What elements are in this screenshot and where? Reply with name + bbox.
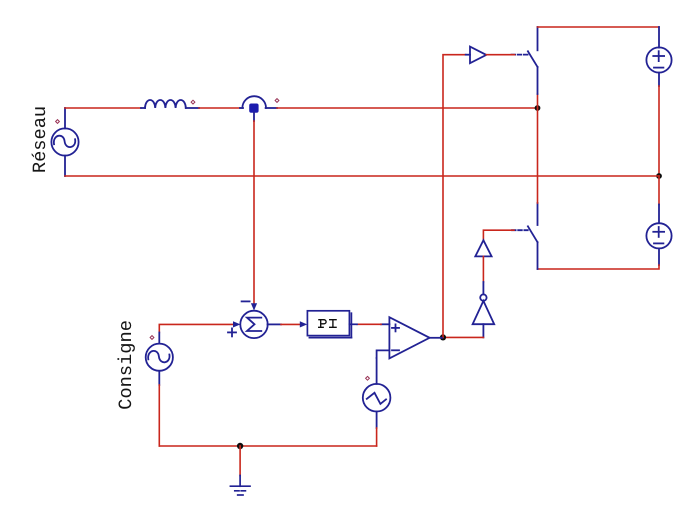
AC source VS2 (Consigne) — [146, 333, 173, 386]
wire mid bus — [65, 175, 659, 177]
label PI — [319, 320, 336, 328]
wire U2 to U3 — [482, 256, 484, 282]
arrowhead into SUM1 left — [233, 321, 240, 327]
label minus of SUM1 — [242, 300, 250, 302]
NOT gate U3 — [473, 282, 495, 337]
node phase junction — [535, 105, 541, 111]
inductor L1 — [141, 100, 199, 108]
buffer gate U4 — [466, 47, 487, 64]
wire comparator output to U3 input — [443, 336, 483, 338]
wire VS2 bottom to ground bus — [158, 385, 160, 446]
wire VTRI1 to ground bus — [376, 428, 378, 446]
wire bottom of bridge leg — [538, 265, 660, 269]
wire sensor output down to SUM1 — [253, 121, 255, 303]
node mid bus right junction — [656, 173, 662, 179]
polarity marker of VS1 — [56, 120, 60, 124]
current sensor ISEN1 — [240, 96, 277, 121]
arrowhead into PI — [300, 321, 307, 327]
wire gate drive S2 — [483, 230, 514, 240]
polarity marker of ISEN1 — [275, 99, 279, 103]
summation block SUM1 — [240, 311, 267, 338]
wire comparator output up — [443, 55, 466, 338]
wire PI to comparator plus — [357, 323, 381, 325]
label Consigne — [115, 320, 137, 410]
DC source V2 — [646, 205, 671, 266]
arrowhead into SUM1 top — [251, 303, 257, 310]
comparator U5 — [377, 317, 442, 358]
buffer gate U2 — [475, 240, 491, 256]
wire U4 output to S1 — [486, 54, 514, 56]
wire V1 bottom to mid bus — [658, 86, 660, 176]
polarity marker of L1 — [191, 100, 195, 104]
node comparator output — [440, 334, 446, 340]
switch S1 — [512, 27, 538, 94]
wire top bus to V1 — [538, 26, 660, 28]
label Réseau — [29, 106, 51, 173]
PI block U6 — [307, 311, 357, 338]
svg-text:Consigne: Consigne — [115, 320, 137, 410]
triangle wave source VTRI1 — [363, 358, 391, 428]
label plus of SUM1 — [228, 328, 236, 336]
wire consigne to SUM1 — [159, 324, 233, 332]
wire sensor to switch node — [277, 107, 538, 109]
switch S2 — [512, 203, 538, 269]
DC source V1 — [646, 27, 671, 86]
wire top-left horizontal — [65, 107, 141, 109]
polarity marker of VS2 — [150, 336, 154, 340]
polarity marker of VTRI1 — [366, 376, 370, 380]
wire segment to PI — [281, 323, 300, 325]
wire junction up to switch S1 — [537, 94, 539, 108]
wire summation to PI with arrow — [268, 323, 282, 325]
wire junction to V2 — [658, 176, 660, 205]
wire junction down to switch S2 — [537, 108, 539, 203]
svg-text:Réseau: Réseau — [29, 106, 51, 173]
node ground junction — [237, 443, 243, 449]
wire inductor to sensor — [199, 107, 240, 109]
ground G1 — [230, 476, 250, 496]
AC source VS1 (Réseau) — [51, 108, 78, 176]
wire down to ground — [239, 446, 241, 476]
wire ground bus — [159, 445, 376, 447]
